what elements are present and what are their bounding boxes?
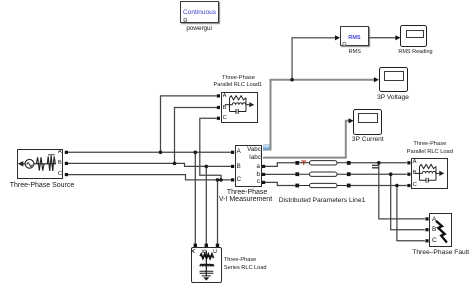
wire Iabc to 3P Current (vector) xyxy=(263,121,349,158)
Three-Phase Source block xyxy=(17,149,63,180)
wire to fault B xyxy=(391,174,425,230)
junction Vabc branch to RMS xyxy=(290,78,294,82)
line1 phase b segment xyxy=(299,172,347,176)
RMS inner icon xyxy=(343,42,346,45)
wire line1 out3 to RLC load C xyxy=(351,185,407,187)
junction phase A to load1 xyxy=(159,151,163,155)
junction phase B to load1 xyxy=(173,162,177,166)
wire phase A: source A to V-I A xyxy=(66,151,232,153)
series RLC load ground symbol xyxy=(203,277,209,280)
powergui inner icon xyxy=(184,18,187,21)
load1 interior RLC icon xyxy=(225,96,251,114)
wire line1 out1 to RLC load A xyxy=(351,162,407,164)
junction phase C to series load xyxy=(216,178,220,182)
source block icon xyxy=(23,155,56,171)
port squares xyxy=(65,94,429,247)
RMS block xyxy=(340,26,369,46)
junction line out b to fault xyxy=(389,172,393,176)
wire load1 C tap xyxy=(200,118,221,180)
Three-Phase Parallel RLC Load block xyxy=(411,158,449,190)
wire load1 A tap xyxy=(161,96,217,152)
powergui label xyxy=(186,25,212,33)
junction line out a to fault xyxy=(377,161,381,165)
3P Current label xyxy=(352,136,384,144)
wire Vabc branch to RMS xyxy=(292,38,336,80)
Three-Phase Parallel RLC Load1 block xyxy=(221,92,259,124)
line1 output ports xyxy=(347,161,351,165)
Three-Phase Fault block xyxy=(429,213,452,247)
line1 phase c segment xyxy=(299,183,347,187)
3P Voltage scope xyxy=(379,67,408,92)
wire Vabc to 3P Voltage (vector) xyxy=(263,80,375,158)
Three-Phase Series RLC Load block xyxy=(191,247,222,283)
wire V-I b to line1 in2 xyxy=(264,173,296,175)
small equals annotation near load A wire xyxy=(372,165,378,167)
arrowheads for signal inputs xyxy=(335,35,400,123)
source output ports xyxy=(65,151,68,154)
RMS Reading input arrow xyxy=(395,35,400,40)
RLC load input ports xyxy=(407,161,410,164)
line1 phase a segment xyxy=(299,161,347,165)
3P Voltage input arrow xyxy=(374,77,379,82)
junction phase C to load1 xyxy=(219,178,223,182)
fault lightning bolt icon xyxy=(436,221,447,243)
series RLC load interior icon xyxy=(200,251,214,277)
junction phase A to series load xyxy=(194,151,198,155)
3P Current input arrow xyxy=(349,118,354,123)
V-I input ports xyxy=(231,151,234,154)
line1 input ports xyxy=(295,161,299,165)
signal logging badge on Vabc xyxy=(263,144,269,149)
source label xyxy=(10,182,75,190)
RMS Reading label xyxy=(398,48,432,56)
wire series load C tap xyxy=(217,180,219,244)
powergui block xyxy=(180,1,219,23)
RMS input arrow xyxy=(335,35,340,40)
Three-Phase V-I Measurement block xyxy=(235,145,262,187)
wire to fault C xyxy=(397,186,425,241)
V-I labels xyxy=(227,189,267,197)
wire to fault A xyxy=(379,163,425,219)
wire line1 out2 to RLC load B xyxy=(351,173,407,175)
3P Voltage label xyxy=(377,94,409,102)
RMS Reading scope xyxy=(400,25,427,47)
junction line out c to fault xyxy=(395,184,399,188)
wire series load A tap xyxy=(194,152,196,244)
V-I output ports a b c xyxy=(262,165,265,168)
fault input ports xyxy=(425,217,428,220)
fault label xyxy=(412,249,469,257)
load1 icon output arrow xyxy=(249,102,254,107)
series load top ports xyxy=(194,244,197,247)
Distributed Parameters Line1 label xyxy=(279,197,366,205)
load1 input ports xyxy=(217,94,220,97)
source icon left arrowhead xyxy=(18,161,23,167)
3P Current scope xyxy=(353,109,382,135)
wire series load B tap xyxy=(205,166,207,243)
wire phase C: source C to V-I C xyxy=(66,175,232,180)
right RLC load icon output arrow xyxy=(439,171,444,176)
wire RMS output to RMS Reading xyxy=(369,37,396,39)
wire phase B: source B to V-I B xyxy=(66,163,232,166)
wire V-I c to line1 in3 xyxy=(264,182,296,185)
RMS label xyxy=(349,48,361,56)
wire load1 B tap xyxy=(175,108,217,164)
red annotation T on line1 xyxy=(301,161,306,165)
right RLC load interior icon xyxy=(415,164,441,182)
load1 labels xyxy=(222,74,255,82)
wire V-I a to line1 in1 xyxy=(264,163,296,167)
junction phase B to series load xyxy=(205,165,209,169)
series load labels xyxy=(224,256,256,264)
RLC load labels xyxy=(413,140,446,148)
